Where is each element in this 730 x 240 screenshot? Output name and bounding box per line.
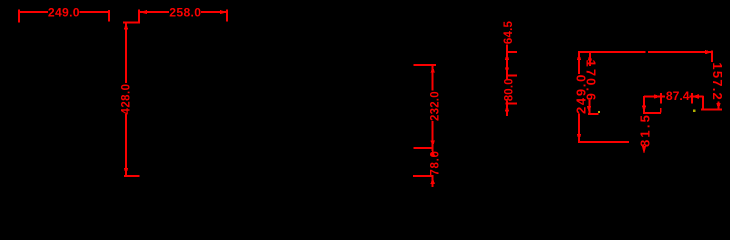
wire lower segment: [506, 100, 508, 116]
wire right segment: [201, 11, 227, 13]
wire right segment: [690, 96, 704, 98]
bottom arrowhead: [587, 106, 591, 113]
wire below 81.5 text: [643, 146, 645, 150]
dimension 249.0 horizontal: wire left segment: [18, 11, 48, 13]
bottom arrowhead: [124, 168, 128, 175]
dimension 232.0 vertical: top extension wire: [414, 64, 437, 66]
wire upper segment: [432, 65, 434, 91]
top arrowhead: [124, 23, 128, 30]
svg-text:157.2: 157.2: [710, 62, 725, 101]
right arrowhead: [220, 10, 227, 14]
bracket horizontal wire: [643, 112, 661, 114]
wire middle segment: [432, 121, 434, 151]
svg-text:87.4: 87.4: [666, 89, 690, 103]
arrowhead down below 81.5: [642, 146, 646, 154]
svg-text:78.0: 78.0: [430, 150, 442, 175]
wire left segment: [140, 11, 169, 13]
grip dot yellow: [598, 111, 600, 113]
bottom extension tick: [701, 109, 722, 111]
dimension 64.5 / 80.0 vertical: wire upper segment: [506, 44, 508, 79]
bottom extension tick: [413, 175, 434, 177]
svg-text:232.0: 232.0: [429, 91, 441, 121]
svg-text:428.0: 428.0: [121, 83, 133, 114]
dimension 81.5: left bracket wire vertical: [643, 96, 645, 113]
grip dot yellow 2: [693, 110, 696, 113]
dimension 87.4: wire left segment: [644, 96, 665, 98]
svg-text:80.0: 80.0: [503, 78, 515, 101]
tick 3 right: [506, 103, 517, 105]
left extension tick: [660, 93, 662, 104]
wire lower segment: [589, 100, 591, 113]
bracket arrowhead down: [642, 106, 646, 113]
wire lower segment: [432, 175, 434, 187]
arrowhead down at tick2: [505, 67, 509, 74]
svg-text:258.0: 258.0: [169, 6, 201, 20]
right extension tick: [226, 10, 228, 22]
elbow wire between 258.0 tick and 428.0 line: [123, 22, 140, 24]
top boundary wire right part: [648, 51, 713, 53]
svg-text:249.0: 249.0: [48, 6, 80, 20]
dimension 258.0 horizontal: left extension tick: [138, 10, 140, 22]
tick 2 right: [506, 75, 517, 77]
arrowhead down on left wire: [577, 134, 581, 141]
wire below text: [718, 102, 720, 110]
dimension 428.0 vertical: wire upper segment: [125, 23, 127, 84]
left boundary wire vertical upper: [578, 51, 580, 74]
arrowhead up at tick1: [505, 53, 509, 60]
middle arrowhead down: [431, 141, 435, 148]
right extension tick: [108, 10, 110, 22]
left arrowhead: [654, 94, 661, 99]
middle extension tick: [414, 147, 434, 149]
arrowhead up on left wire: [577, 53, 581, 60]
bottom boundary wire: [578, 141, 629, 143]
left arrowhead: [140, 10, 147, 14]
bottom extension tick: [588, 113, 599, 115]
svg-text:170.6: 170.6: [584, 59, 599, 102]
arrowhead right on top wire: [705, 50, 713, 54]
middle arrowhead up: [431, 149, 435, 156]
bottom arrowhead: [716, 103, 720, 110]
right corner wire down: [702, 96, 704, 111]
top arrowhead: [431, 66, 435, 73]
left boundary wire vertical lower: [578, 114, 580, 144]
dimension 170.6: wire upper segment: [589, 53, 591, 67]
bottom arrowhead: [431, 177, 435, 184]
svg-text:81.5: 81.5: [637, 113, 652, 147]
wire right segment: [80, 11, 110, 13]
wire lower segment: [125, 114, 127, 175]
svg-text:64.5: 64.5: [503, 21, 515, 45]
arrowhead up at tick3: [505, 105, 509, 112]
bottom extension tick: [124, 175, 140, 177]
right arrowhead: [692, 94, 699, 99]
right cluster: top boundary wire left part: [578, 51, 646, 53]
left extension tick: [18, 10, 20, 23]
bracket right stub up: [660, 108, 662, 113]
top arrowhead: [588, 54, 592, 61]
tick 1 right: [506, 51, 517, 53]
right extension tick: [691, 93, 693, 104]
dimension 157.2: corner stub from top wire: [711, 51, 713, 63]
